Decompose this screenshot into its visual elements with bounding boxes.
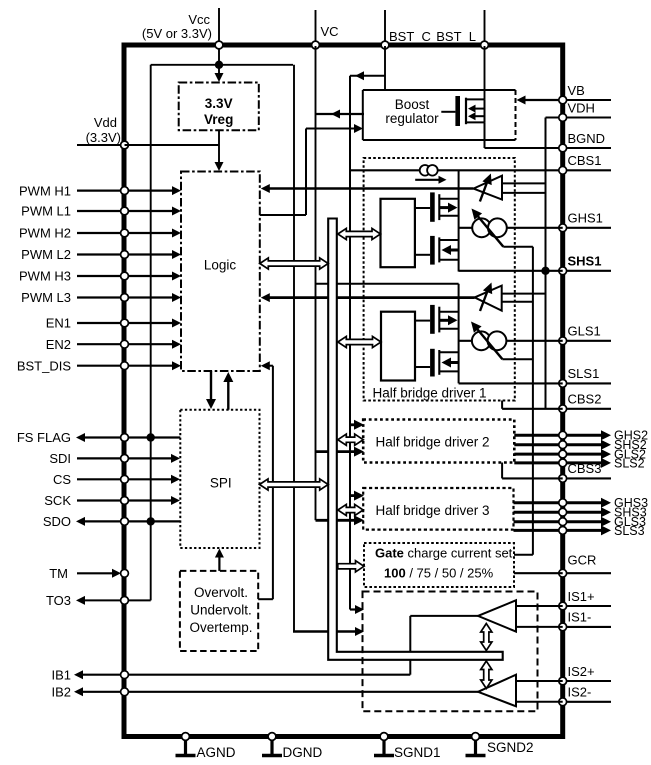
op-amp IS1 current sense amplifier 1 [478,600,563,631]
pin BST_L [436,10,488,49]
pin Vdd [77,115,128,149]
pin IS2+ [559,664,611,685]
pin EN2 [46,337,181,352]
gate charge current set block [364,543,514,587]
wire Vcc internal rail [151,61,293,69]
gain set arrow amp1 [481,624,492,651]
pin IS1+ [559,589,611,610]
svg-text:SPI: SPI [210,476,232,491]
bus arrow to gate charge current set [338,561,364,572]
pin PWM L1 [21,204,181,219]
svg-text:PWM L1: PWM L1 [21,204,71,219]
wire VC to half bridge driver 2 (solid arrow) [316,447,365,457]
svg-text:Half bridge driver 3: Half bridge driver 3 [376,503,490,518]
svg-text:PWM H3: PWM H3 [19,269,71,284]
svg-text:SCK: SCK [44,493,71,508]
voltage regulator U1 3.3V Vreg [179,83,259,131]
svg-text:GCR: GCR [568,553,597,568]
wire VC to boost regulator (arrow left) [316,110,365,119]
gate driver stage high side [381,199,415,267]
svg-text:SHS1: SHS1 [568,254,602,269]
svg-text:IB2: IB2 [51,685,71,700]
level shifter high side (triangle with variable arrow) [473,174,545,202]
svg-text:SGND2: SGND2 [487,740,534,755]
svg-text:SDI: SDI [49,451,71,466]
pin BGND [559,131,611,152]
svg-text:SLS2: SLS2 [614,456,645,470]
wire boost source to BGND [485,122,563,148]
svg-text:IS1-: IS1- [568,610,592,625]
transistor source FET high side [415,192,459,221]
pin SDO [43,514,180,529]
svg-text:TO3: TO3 [46,593,71,608]
wire BST_L to boost MOSFET drain [484,46,486,99]
svg-text:BST_DIS: BST_DIS [17,358,72,373]
wire Logic to SPI arrow [206,371,216,409]
svg-text:(3.3V): (3.3V) [86,130,121,145]
svg-text:Overvolt.: Overvolt. [194,585,248,600]
wire SPI to Logic arrow [223,372,233,410]
pin CBS2 [559,392,611,413]
pin IS1- [559,610,611,631]
svg-text:VDH: VDH [568,100,595,115]
wire protection to Logic arrow [258,361,273,599]
wire CBS2 [502,401,563,409]
ground SGND2 [466,733,534,756]
pin BST_DIS [17,358,181,373]
wire Logic to boost regulator control [260,124,363,215]
svg-text:PWM L2: PWM L2 [21,247,71,262]
pin GHS3 [514,496,649,510]
logic block [181,172,260,372]
wire GLS1 [459,340,563,342]
svg-text:VC: VC [321,24,339,39]
pin GLS1 [559,324,611,345]
wire GHS1 [459,227,563,229]
svg-text:AGND: AGND [197,745,236,760]
pin PWM H1 [19,183,181,198]
wire Logic to high side level shifter [261,184,474,193]
variable current source on GHS1 (gate charge) [472,209,507,247]
svg-text:100 / 75 / 50 / 25%: 100 / 75 / 50 / 25% [384,566,494,581]
svg-text:IB1: IB1 [51,667,71,682]
svg-text:TM: TM [49,566,68,581]
svg-text:SGND1: SGND1 [394,745,441,760]
pin VB [559,83,611,104]
wire VB into boost (arrow left) [517,96,563,105]
wire BST_C into boost regulator [384,46,386,90]
svg-text:BST_L: BST_L [436,29,476,44]
pin PWM H3 [19,269,181,284]
transistor source FET low side [415,305,459,334]
svg-text:DGND: DGND [283,745,323,760]
wire GCR to gate charge current set [514,572,563,574]
pin GLS2 [514,448,646,462]
svg-text:EN2: EN2 [46,337,71,352]
pin CBS3 [559,461,611,482]
pin SHS3 [514,506,647,520]
level shifter low side (triangle with variable arrow) [475,283,546,312]
wire Vdd to Vreg output node [125,144,220,146]
pin BST_C [381,10,431,49]
wire CBS3 [502,463,563,479]
pin TO3 [46,593,151,608]
bus arrow Logic [260,258,328,269]
svg-text:BGND: BGND [568,131,606,146]
ground SGND1 [374,733,441,760]
wire high side output node [458,170,460,271]
wire BST_C feedback (arrow left) [350,71,385,80]
pin GHS1 [559,211,611,232]
pin VC [312,10,339,49]
IC chip boundary [124,45,563,737]
wire VDH vertical rail to level shifters / SHS1 [546,118,563,409]
svg-text:PWM L3: PWM L3 [21,290,71,305]
pin SCK [44,493,180,508]
pin GLS3 [514,515,647,529]
half bridge driver 3 block [363,488,513,530]
wire rail right branch (down to IS block) [293,65,295,632]
svg-text:PWM H1: PWM H1 [19,183,71,198]
svg-text:Logic: Logic [204,257,237,272]
charge pump current source on CBS1 line [415,165,446,184]
svg-text:VB: VB [568,83,585,98]
bus arrow to half bridge driver 2 [338,434,363,445]
pin FS FLAG [17,430,180,445]
wire SHS1 [459,267,563,275]
wire to current sense block (arrow right) [350,605,364,614]
svg-text:regulator: regulator [385,111,439,126]
svg-text:CS: CS [53,472,71,487]
wire gate charge control to GCR chain [502,358,533,360]
svg-text:(5V or 3.3V): (5V or 3.3V) [142,26,212,41]
wire Vcc rail to current sense block (arrow right) [293,627,364,636]
svg-text:IS1+: IS1+ [568,589,595,604]
current sense block (dashed) [363,592,538,712]
svg-text:BST_C: BST_C [389,29,431,44]
pin EN1 [46,316,181,331]
svg-text:CBS2: CBS2 [568,392,602,407]
wire SLS1 [459,382,563,384]
wire Vcc to Vreg arrow [215,65,224,82]
wire protection to SPI arrow [215,549,224,571]
pin VDH [559,100,611,121]
svg-text:Vdd: Vdd [94,115,117,130]
wire gate charge control to GCR chain [503,246,533,248]
pin IB2 [51,685,478,700]
svg-text:CBS1: CBS1 [568,153,602,168]
wire Logic to low side level shifter [261,293,475,302]
bus arrow to low side driver stage [338,336,381,347]
svg-text:SLS1: SLS1 [568,366,600,381]
bus arrow to half bridge driver 3 [338,504,363,515]
wire L1: VC to HB1 low side rail [316,283,459,285]
transistor sink FET low side [415,349,459,377]
wire Vreg to Logic arrow [215,130,224,171]
boost regulator block [363,90,516,140]
svg-text:IS2-: IS2- [568,685,592,700]
pin Vcc [142,8,223,65]
half bridge driver 1 block [364,158,515,401]
svg-text:GHS1: GHS1 [568,211,603,226]
svg-text:3.3V: 3.3V [205,96,233,111]
svg-text:Boost: Boost [395,97,430,112]
svg-text:Vreg: Vreg [204,112,233,127]
bus gate control channel (L-shaped) [328,219,503,660]
SPI block [180,410,259,548]
pin SLS3 [514,524,645,538]
protection block Overvolt/Undervolt/Overtemp [180,571,258,651]
ground AGND [176,733,236,760]
svg-text:PWM H2: PWM H2 [19,226,71,241]
pin SHS1 [559,254,611,275]
bus arrow to high side driver stage [338,228,381,239]
transistor Q1 boost MOSFET [441,96,484,126]
svg-text:Undervolt.: Undervolt. [190,603,252,618]
wire rail left branch (to FS FLAG / SDO / TO3) [150,65,152,601]
svg-text:SLS3: SLS3 [614,524,645,538]
variable current source on GLS1 (gate charge) [471,322,506,360]
svg-text:GLS1: GLS1 [568,324,601,339]
transistor sink FET high side [415,236,459,265]
pin CS [53,472,180,487]
wire low side output node [458,284,460,384]
svg-text:Overtemp.: Overtemp. [189,620,252,635]
pin IS2- [559,685,611,706]
pin SLS2 [514,456,644,470]
wire VC to half bridge driver 3 (solid arrow) [316,515,365,525]
wire to half bridge driver 2 (solid arrow) [350,420,364,430]
pin IB1 [51,667,410,682]
wire to half bridge driver 3 (solid arrow) [350,491,364,501]
gate driver stage low side [381,312,415,381]
half bridge driver 2 block [363,420,514,463]
bus arrow SPI [260,479,329,490]
op-amp IS2 current sense amplifier 2 [478,675,563,707]
pin PWM L3 [21,290,181,305]
svg-text:IS2+: IS2+ [568,664,595,679]
pin PWM H2 [19,226,181,241]
pin TM [49,566,128,581]
svg-text:SDO: SDO [43,514,71,529]
pin GCR [559,553,611,578]
pin SHS2 [514,438,646,452]
wire GCR control chain vertical [514,247,533,555]
svg-text:Gate charge current set: Gate charge current set [375,546,513,561]
pin CBS1 [559,153,611,174]
wire to CBS1 [350,169,563,171]
svg-text:Half bridge driver 2: Half bridge driver 2 [376,435,490,450]
gain set arrow amp2 [481,661,492,689]
pin SDI [49,451,180,466]
wire VC distribution line [315,46,317,520]
pin PWM L2 [21,247,181,262]
svg-text:Vcc: Vcc [188,12,210,27]
svg-text:EN1: EN1 [46,316,71,331]
wire BST_C vertical distribution [349,76,351,610]
wire IB1 to IS1 amp [410,616,478,675]
svg-text:Half bridge driver 1: Half bridge driver 1 [373,386,487,401]
pin GHS2 [514,429,648,443]
pin SLS1 [559,366,611,387]
ground DGND [262,733,322,760]
svg-text:FS FLAG: FS FLAG [17,430,71,445]
